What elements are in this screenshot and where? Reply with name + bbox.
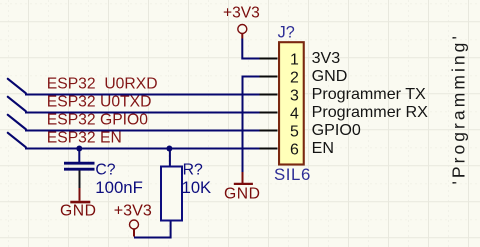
svg-text:Programmer RX: Programmer RX <box>312 103 429 121</box>
svg-text:ESP32 U0TXD: ESP32 U0TXD <box>47 93 152 110</box>
svg-text:6: 6 <box>290 141 299 158</box>
svg-text:ESP32 EN: ESP32 EN <box>47 130 122 147</box>
svg-text:ESP32 GPIO0: ESP32 GPIO0 <box>47 112 148 129</box>
svg-text:R?: R? <box>183 162 203 179</box>
svg-text:+3V3: +3V3 <box>114 202 152 220</box>
svg-text:+3V3: +3V3 <box>223 5 260 22</box>
svg-text:J?: J? <box>278 24 295 42</box>
svg-text:C?: C? <box>95 162 115 179</box>
svg-text:GND: GND <box>60 203 97 220</box>
svg-text:2: 2 <box>290 69 299 86</box>
svg-text:1: 1 <box>290 51 299 68</box>
svg-text:100nF: 100nF <box>95 178 143 197</box>
svg-text:SIL6: SIL6 <box>274 165 311 184</box>
svg-text:3V3: 3V3 <box>312 49 341 67</box>
svg-text:EN: EN <box>312 139 334 157</box>
svg-text:Programmer TX: Programmer TX <box>312 85 426 103</box>
svg-text:ESP32 U0RXD: ESP32 U0RXD <box>47 76 158 93</box>
svg-text:4: 4 <box>290 105 299 122</box>
svg-text:GND: GND <box>312 67 348 85</box>
svg-text:GND: GND <box>224 186 261 203</box>
svg-text:10K: 10K <box>182 178 212 197</box>
svg-text:3: 3 <box>290 87 299 104</box>
svg-text:GPIO0: GPIO0 <box>312 121 361 139</box>
svg-text:'Programming': 'Programming' <box>449 33 469 184</box>
svg-text:5: 5 <box>290 123 299 140</box>
